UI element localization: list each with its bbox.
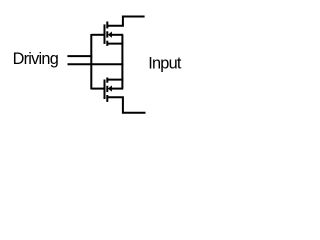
transistor Q1 body arrow [108,32,112,38]
wire: upper Driving line to gate bus [67,55,92,57]
wire: lower Driving line to midpoint node [68,63,124,65]
wire: Q1 drain up to top rail [107,17,144,26]
wire: gate lead of Q2 [91,88,105,90]
transistor Q1 channel segment (source) [106,41,108,46]
wire: midpoint vertical (Q1 body/source to Q2 drain/body) [121,35,123,89]
transistor Q2 channel segment (body) [106,86,108,92]
wire: gate bus vertical [90,34,92,89]
transistor Q2 channel segment (drain) [106,78,108,83]
wire: Q1 body stub [111,34,123,36]
svg-text:Driving: Driving [13,50,58,68]
svg-text:Input: Input [148,54,182,72]
wire: Q2 body stub [111,88,123,90]
transistor Q1 gate plate [104,24,106,44]
transistor Q1 channel segment (drain) [106,22,108,29]
transistor Q2 gate plate [104,80,106,100]
transistor Q2 channel segment (source) [106,95,108,102]
transistor Q2 body arrow [108,85,112,91]
transistor Q1 channel segment (body) [106,31,108,37]
wire: Q1 source stub [107,43,123,45]
wire: Q2 source down to bottom rail [107,97,145,113]
wire: Q2 drain stub to midpoint [107,79,123,81]
wire: gate lead of Q1 [91,34,105,36]
